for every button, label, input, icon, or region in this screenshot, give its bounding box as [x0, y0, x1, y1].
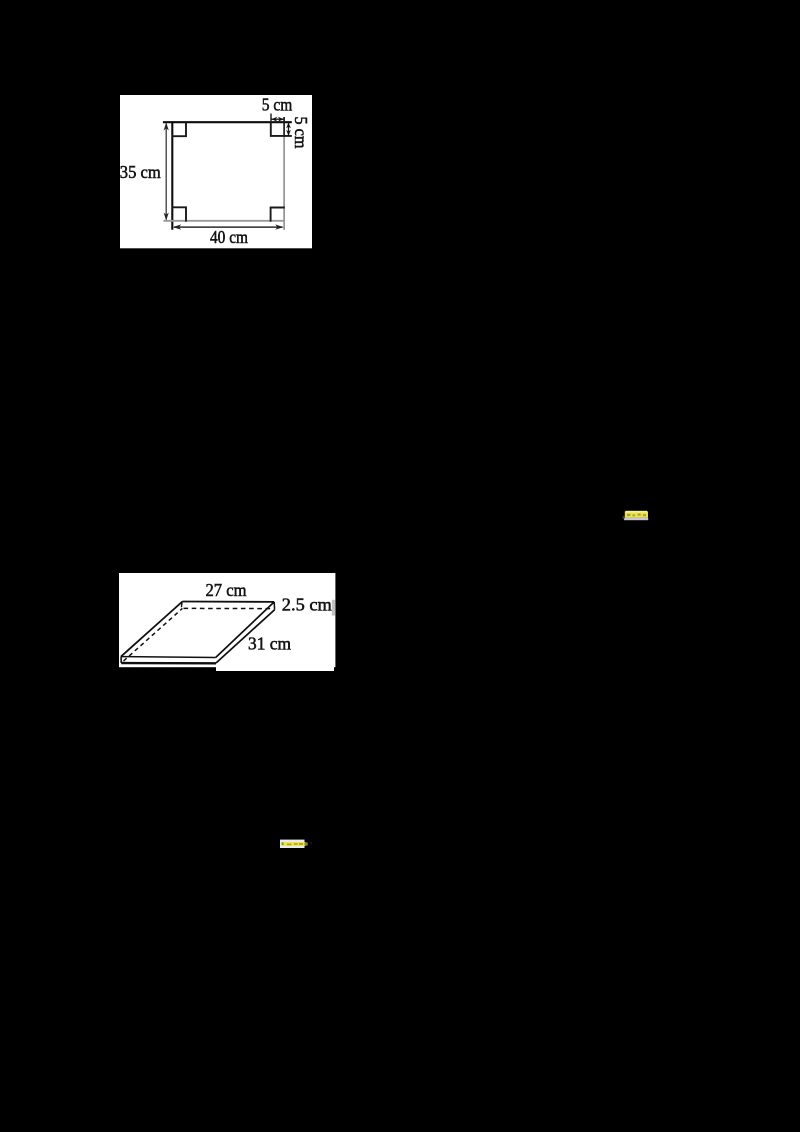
dim line 5cm right arrow line — [288, 122, 290, 136]
white panel 1 (cut-corner rectangle figure) — [120, 95, 312, 248]
hidden edge B'C' (dashed) — [184, 607, 273, 609]
highlight mark 1: gray underline band — [624, 518, 648, 521]
arrowhead 5cm right-bottom — [286, 130, 291, 136]
corner square TR — [271, 121, 292, 135]
highlight mark 2: green speck — [282, 842, 284, 845]
arrowhead 35cm bottom — [164, 213, 169, 221]
slab top face edge BC (back) — [182, 601, 274, 603]
arrowhead 35cm top — [164, 123, 169, 131]
highlight mark 1: yellow strip — [625, 511, 648, 517]
arrowhead 5cm top-left — [271, 117, 277, 122]
slab bottom front edge A'D' — [121, 662, 216, 665]
highlight mark 2: faint red dot right — [311, 842, 312, 845]
highlight mark 2: text squiggles — [287, 843, 303, 845]
highlight mark 1: text speckles — [627, 514, 646, 517]
svg-text:2.5 cm: 2.5 cm — [282, 595, 332, 615]
slab left vertical edge AA' — [120, 657, 122, 664]
slab tip vertical edge CC' — [273, 602, 275, 610]
white panel 2 bottom-right extension — [216, 650, 334, 671]
slab top face edge AD (front) — [121, 656, 216, 659]
highlight mark 2: yellow strip — [281, 842, 305, 846]
hidden edge A'B' (dashed) — [124, 608, 183, 661]
highlight mark 2: olive tail — [305, 842, 308, 845]
svg-text:35 cm: 35 cm — [120, 162, 161, 182]
slab top face edge AB (left) — [121, 602, 182, 657]
dim line 5cm top arrow line — [271, 118, 284, 120]
rectangle left edge — [171, 121, 173, 230]
slab top face edge CD (right) — [216, 602, 275, 658]
rectangle bottom edge — [163, 220, 284, 222]
corner square BL — [172, 207, 187, 221]
highlight mark 1: pale top row — [626, 511, 648, 513]
arrowhead 5cm top-right — [278, 117, 284, 122]
arrowhead 40cm left — [173, 224, 181, 229]
svg-text:27 cm: 27 cm — [206, 580, 247, 600]
dim line 35cm vertical — [165, 124, 167, 220]
highlight mark 2: white backing — [280, 840, 305, 848]
rectangle right edge — [283, 117, 285, 137]
arrowhead 5cm right-top — [286, 123, 291, 129]
corner square TL — [172, 122, 187, 136]
hidden edge BB' (short dash) — [180, 603, 183, 608]
corner square BR — [271, 208, 285, 222]
white panel 2 (slab figure), main part — [119, 573, 335, 667]
svg-text:5 cm: 5 cm — [262, 95, 293, 115]
dim line 5cm top tick — [270, 114, 272, 123]
svg-text:31 cm: 31 cm — [248, 633, 291, 653]
dim line 40cm horizontal — [174, 226, 283, 228]
gray notch at right edge of panel 2 — [332, 600, 336, 616]
highlight mark 1: dark left notch — [623, 516, 625, 519]
svg-text:40 cm: 40 cm — [210, 227, 248, 247]
slab right strip bottom edge C'D' — [216, 610, 275, 663]
svg-text:5 cm: 5 cm — [291, 117, 311, 149]
rectangle top edge — [163, 121, 292, 123]
arrowhead 40cm right — [275, 224, 283, 229]
